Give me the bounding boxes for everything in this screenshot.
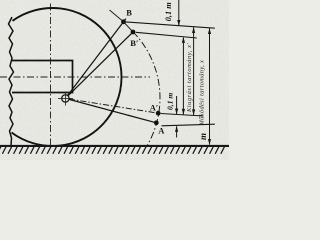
svg-text:Működési tartomány, x: Működési tartomány, x <box>199 60 206 127</box>
svg-text:A: A <box>158 126 165 136</box>
svg-text:0,1 m: 0,1 m <box>164 2 173 22</box>
svg-text:B: B <box>126 7 132 17</box>
svg-text:B′: B′ <box>130 38 138 48</box>
svg-text:A′: A′ <box>150 102 159 112</box>
svg-text:m: m <box>198 133 208 140</box>
svg-text:Kiugrási tartomány, x′: Kiugrási tartomány, x′ <box>186 43 193 113</box>
svg-text:0,1 m: 0,1 m <box>166 93 175 110</box>
